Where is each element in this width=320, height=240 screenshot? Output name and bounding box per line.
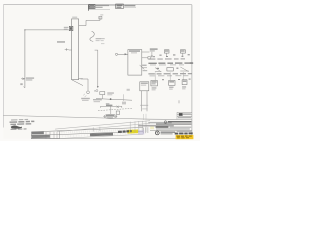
smudge node — [122, 102, 126, 105]
strip text smudge right dark — [118, 130, 132, 133]
junction dot on L-mid — [110, 98, 112, 100]
stub wires row6 — [155, 72, 183, 80]
note above bracket — [106, 103, 110, 104]
note text row 2 — [138, 125, 174, 127]
bus wire from A2 right — [146, 91, 148, 112]
sheet border right — [191, 5, 193, 139]
relay K7 — [151, 81, 158, 86]
relay K9 — [182, 80, 187, 85]
contact CB3 — [167, 68, 173, 71]
label under TP1 — [81, 98, 90, 99]
bracket label — [106, 105, 112, 107]
revision strip ruler lines — [60, 127, 143, 138]
component C1 on terminal strip left edge — [68, 26, 73, 30]
title block mini table — [177, 112, 192, 119]
label text row mid-left — [57, 41, 65, 43]
contact CB2 — [180, 50, 185, 57]
label left of C1 — [64, 27, 69, 28]
label under TP2 — [93, 99, 102, 100]
label right of K5 — [95, 5, 109, 6]
hatch at TP1 — [83, 94, 86, 97]
arrowhead TP2 — [97, 86, 99, 88]
label under K8 — [169, 87, 173, 88]
title text row 1 — [156, 123, 191, 124]
small box J2 top — [99, 16, 102, 19]
wire L-mid horizontal — [96, 99, 132, 101]
wire W2 horizontal top-left — [25, 29, 68, 31]
relay K6 — [116, 4, 124, 9]
pale highlight 2 — [150, 127, 154, 130]
wire right of K6 — [124, 6, 136, 8]
strip text smudge center — [90, 133, 113, 136]
title text row 2 — [170, 127, 192, 128]
arrow wire into module A1 — [118, 53, 128, 55]
drawing number text dark — [175, 132, 193, 134]
text row R4 — [148, 62, 193, 64]
dashed wire — [98, 108, 132, 110]
wire W1 vertical left — [24, 30, 26, 88]
label under K9 — [182, 86, 186, 87]
right cluster: label L1 — [150, 48, 158, 49]
small wire stub top right — [178, 100, 180, 103]
wire under top cluster — [88, 9, 110, 11]
relay K8 — [169, 81, 175, 86]
size cage code row — [177, 131, 192, 132]
connector open square — [116, 111, 119, 114]
tiny marks left of A1 — [101, 38, 105, 39]
capacitor tick C2 — [65, 48, 72, 51]
speck marks right cluster — [153, 54, 193, 80]
module A1 label — [129, 50, 140, 52]
module A1 box — [128, 50, 142, 76]
test point TP2 circle — [96, 90, 98, 92]
label above terminal strip — [72, 17, 77, 18]
module A2 label — [141, 83, 148, 84]
highlight mark yellow large — [176, 135, 194, 139]
test point TP1 circle — [87, 91, 90, 94]
junction dot at wire corner — [24, 29, 25, 30]
tick at TB1 right bottom — [78, 78, 83, 80]
bus wire from A2 left — [141, 91, 143, 112]
junction cluster on A1 right edge — [140, 65, 145, 70]
wire to test point TP2 — [95, 50, 98, 87]
crease line 1 — [55, 121, 150, 129]
cable balloon W10 — [104, 114, 117, 118]
title text row 3 — [156, 128, 190, 129]
lavender stamp highlight — [138, 130, 144, 134]
company logo circle — [164, 121, 167, 124]
label right of K6 — [124, 5, 135, 7]
wire from TB1 to small box top — [79, 17, 100, 25]
terminal at W1 bottom — [23, 87, 25, 88]
tick marks on bus wires — [140, 105, 148, 106]
label x2 at wire W1 bottom — [20, 83, 22, 85]
title block divider line — [150, 129, 192, 131]
switch S2 — [180, 67, 189, 72]
diagonal at TB1 bottom — [72, 80, 83, 86]
contact CB1 — [164, 50, 169, 57]
strip end ticks — [144, 127, 148, 133]
label under K7 — [152, 87, 157, 88]
scan fog inside frame — [4, 5, 192, 139]
note text row above strip right — [148, 122, 171, 123]
x-mark node — [117, 106, 119, 108]
drawing number logo circle — [155, 131, 159, 135]
terminal circle T1 — [115, 53, 117, 55]
highlight mark yellow small — [127, 129, 138, 133]
arrow tick on wire W1 — [21, 78, 25, 80]
relay K1 — [100, 92, 105, 99]
signature smudge — [156, 126, 169, 127]
stub wire A1 pin3 — [142, 67, 147, 69]
text row R3 — [148, 58, 185, 60]
company name text — [168, 121, 192, 123]
text on highlight — [177, 136, 192, 139]
module A2 box — [140, 82, 149, 91]
arrowhead into A1 — [125, 53, 128, 55]
wire to test point TP1 — [81, 79, 89, 91]
sheet border top — [3, 4, 192, 6]
label at junction — [142, 65, 146, 66]
text row R6 — [148, 73, 192, 75]
label right of K1 — [107, 92, 114, 93]
smudge node2 — [127, 89, 130, 91]
approval stamp block — [9, 119, 34, 130]
terminal strip TB1 tall box — [72, 19, 79, 80]
firm name text rows — [161, 132, 176, 133]
strip column dividers right — [130, 121, 146, 133]
label at squiggle — [96, 38, 101, 39]
sheet border bottom — [31, 138, 192, 140]
schematic margin line — [3, 115, 192, 119]
faint wire stub — [123, 94, 125, 101]
crease line 2 — [57, 123, 150, 131]
cable loop squiggle — [90, 31, 94, 41]
bus wire continuation stubs — [144, 114, 146, 120]
paper background — [0, 0, 200, 141]
leader to balloon — [110, 106, 112, 114]
label near wire W1 — [26, 77, 34, 78]
arrow glyph left of TP2 — [94, 90, 95, 92]
tiny mark below top cluster — [100, 14, 103, 15]
stub wire A1 pin1 — [142, 51, 150, 53]
diagonal fold lines — [93, 127, 100, 132]
dimension bracket — [101, 106, 122, 108]
wire with down arrow — [151, 52, 153, 58]
switch S1 — [155, 68, 162, 72]
wire between top clusters — [108, 5, 116, 7]
top components cluster: relay K5 — [89, 4, 96, 10]
stub wire A1 pin2 with termination box — [142, 57, 148, 59]
sheet border left — [2, 5, 4, 128]
revision strip left table — [31, 131, 59, 139]
